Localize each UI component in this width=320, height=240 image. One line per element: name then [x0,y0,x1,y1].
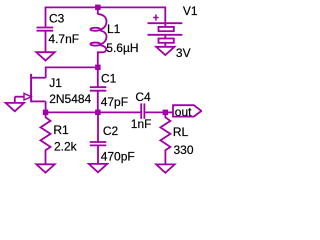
junction node C1/C2 rail [95,110,101,116]
ground below C2 [89,164,107,172]
svg-text:4.7nF: 4.7nF [48,32,79,46]
svg-text:out: out [175,105,192,119]
ground at gate [6,103,24,111]
ground below R1 [36,164,54,172]
port out flag [173,105,201,116]
svg-text:1nF: 1nF [131,117,152,131]
svg-text:C4: C4 [135,90,151,104]
ground below C3 [36,52,54,60]
resistor RL [160,112,170,164]
plus sign V1 [153,14,158,20]
wire bottom rail mid [98,111,141,113]
inductor L1 [90,7,106,67]
capacitor C2 [90,112,107,163]
svg-text:C2: C2 [103,124,119,138]
capacitor C3 [37,28,54,53]
svg-text:5.6µH: 5.6µH [106,41,138,55]
wire drain to node [46,67,98,77]
wire top rail [46,7,166,27]
svg-text:C1: C1 [101,72,117,86]
svg-text:R1: R1 [53,123,69,137]
wire bottom rail right [144,111,165,113]
svg-text:RL: RL [173,125,189,139]
wire to out port [165,111,173,113]
svg-text:47pF: 47pF [101,95,128,109]
capacitor C1 [90,67,107,112]
capacitor C4 [141,103,144,118]
ground below V1 [156,47,174,55]
wire bottom rail left [46,111,98,113]
svg-text:3V: 3V [176,46,191,60]
svg-text:2.2k: 2.2k [54,140,78,154]
svg-text:330: 330 [174,143,194,157]
svg-text:2N5484: 2N5484 [49,92,91,106]
battery V1 [148,23,183,47]
ground below RL [156,164,174,172]
junction node drain/C1 [95,65,101,71]
svg-text:C3: C3 [49,12,65,26]
svg-text:L1: L1 [107,22,121,36]
junction node source/R1 [43,110,49,116]
svg-text:470pF: 470pF [101,150,135,164]
svg-text:V1: V1 [183,4,198,18]
junction node top (L1/V1 rail) [95,5,101,11]
junction node RL/out [163,110,169,116]
resistor R1 [41,112,51,164]
transistor J1 [15,74,46,113]
svg-text:J1: J1 [49,76,62,90]
